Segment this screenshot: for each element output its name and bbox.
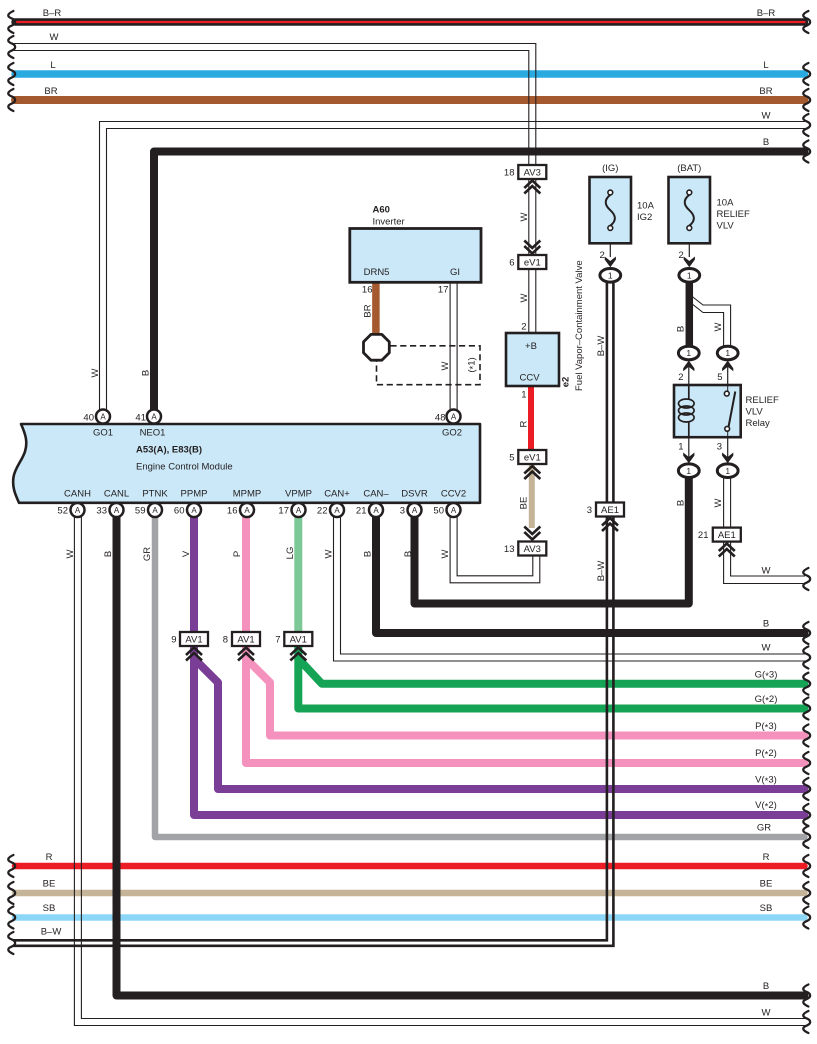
svg-text:GR: GR bbox=[757, 823, 771, 834]
svg-text:A: A bbox=[412, 506, 418, 515]
wire stub fuse BAT pin 2 bbox=[688, 230, 690, 257]
connector 1 above relay pin 5 bbox=[717, 346, 738, 360]
svg-text:eV1: eV1 bbox=[524, 452, 541, 463]
svg-text:L: L bbox=[50, 60, 55, 71]
ECM pin 48 GO2 bbox=[447, 410, 461, 424]
svg-text:VPMP: VPMP bbox=[285, 489, 312, 500]
break symbol B-W left bbox=[8, 932, 15, 954]
wire B from fuse BAT to relay feed connector bbox=[686, 282, 694, 347]
connector AV1-9 bbox=[171, 632, 208, 646]
svg-text:9: 9 bbox=[171, 634, 176, 645]
svg-text:CANH: CANH bbox=[64, 489, 91, 500]
svg-text:B: B bbox=[676, 500, 687, 506]
svg-text:W: W bbox=[90, 368, 101, 377]
svg-text:1: 1 bbox=[725, 466, 730, 476]
wire W between AV3-18 and eV1-6 bbox=[529, 178, 536, 256]
svg-text:W: W bbox=[713, 322, 724, 331]
svg-text:RELIEF: RELIEF bbox=[746, 395, 779, 406]
wire B-R black base top horizontal bbox=[15, 18, 805, 26]
break symbol W right AE1-21 bbox=[803, 568, 810, 590]
ECM pin 33 CANL bbox=[110, 503, 124, 517]
svg-text:W: W bbox=[762, 1008, 771, 1019]
svg-text:17: 17 bbox=[438, 285, 449, 296]
svg-text:A: A bbox=[334, 506, 340, 515]
break symbol SB left bbox=[8, 907, 15, 929]
svg-text:MPMP: MPMP bbox=[233, 489, 262, 500]
svg-text:Fuel Vapor–Containment Valve: Fuel Vapor–Containment Valve bbox=[574, 260, 585, 391]
connector AV1-7 bbox=[275, 632, 312, 646]
wire B-W from fuse IG down and left to edge bbox=[13, 282, 613, 946]
svg-text:40: 40 bbox=[83, 413, 94, 424]
svg-text:A60: A60 bbox=[373, 205, 390, 216]
break symbol G(*3) right bbox=[803, 673, 810, 695]
break symbol B-R left bbox=[8, 11, 15, 33]
svg-text:W: W bbox=[519, 212, 530, 221]
chevron toward AV3-18 bbox=[524, 181, 540, 194]
wire BR (brown) top horizontal bbox=[15, 96, 805, 104]
svg-text:W: W bbox=[65, 549, 76, 558]
svg-text:LG: LG bbox=[285, 547, 296, 560]
svg-text:GO1: GO1 bbox=[93, 428, 113, 439]
break symbol BE left bbox=[8, 882, 15, 904]
connector AV1-8 bbox=[223, 632, 260, 646]
svg-text:e2: e2 bbox=[561, 377, 572, 388]
break symbol B right top bbox=[803, 141, 810, 163]
break symbol BR left bbox=[8, 89, 15, 111]
arrow into connector above relay pin 2 bbox=[683, 360, 694, 371]
svg-text:GI: GI bbox=[450, 267, 460, 278]
svg-text:NEO1: NEO1 bbox=[140, 428, 166, 439]
wire B from right edge to ECM pin NEO1 bbox=[154, 152, 805, 411]
wire R (red) bottom horizontal bbox=[15, 863, 805, 870]
connector eV1-6 bbox=[509, 255, 546, 269]
svg-text:Relay: Relay bbox=[746, 418, 771, 429]
svg-text:B: B bbox=[141, 370, 152, 376]
break symbol V(*2) right bbox=[803, 804, 810, 826]
connector eV1-5 bbox=[509, 450, 546, 464]
svg-text:B: B bbox=[103, 551, 114, 557]
svg-text:A: A bbox=[75, 506, 81, 515]
relay coil bbox=[679, 385, 695, 437]
connector 1 below relay pin 3 bbox=[717, 464, 738, 478]
svg-text:2: 2 bbox=[679, 250, 684, 261]
wire W from ECM pin CAN+ to right edge bbox=[334, 517, 806, 661]
svg-text:16: 16 bbox=[362, 285, 373, 296]
wire L (blue) top horizontal bbox=[15, 70, 805, 78]
break symbol SB right bbox=[803, 907, 810, 929]
wire V(*3) branch from AV1-9 to right edge bbox=[194, 659, 805, 790]
svg-text:CCV: CCV bbox=[519, 373, 540, 384]
svg-text:G(*3): G(*3) bbox=[755, 670, 778, 683]
chevron toward AE1-3 bbox=[602, 518, 618, 531]
svg-text:A: A bbox=[451, 413, 457, 422]
svg-text:5: 5 bbox=[509, 452, 514, 463]
wire V from ECM pin PPMP to connector AV1-9 bbox=[190, 517, 198, 633]
svg-text:R: R bbox=[763, 852, 770, 863]
svg-text:21: 21 bbox=[698, 530, 709, 541]
connector AV3-13 bbox=[504, 542, 546, 556]
svg-text:BE: BE bbox=[760, 879, 773, 890]
svg-text:B–W: B–W bbox=[596, 336, 607, 357]
svg-text:CANL: CANL bbox=[104, 489, 129, 500]
fuse 10A IG2 box bbox=[590, 177, 632, 243]
wire BR from inverter DRN5 to noise filter bbox=[372, 282, 380, 333]
svg-text:V: V bbox=[181, 550, 192, 557]
break symbol V(*3) right bbox=[803, 778, 810, 800]
svg-text:AV1: AV1 bbox=[237, 634, 254, 645]
svg-text:17: 17 bbox=[278, 506, 289, 517]
connector AV3-18 bbox=[504, 165, 546, 179]
svg-text:3: 3 bbox=[587, 505, 592, 516]
connector 1 above relay pin 2 bbox=[678, 346, 699, 360]
svg-text:1: 1 bbox=[521, 390, 526, 401]
arrow into connector below relay pin 3 bbox=[722, 453, 733, 464]
wire W from AE1-21 to right edge bbox=[724, 541, 805, 584]
svg-text:1: 1 bbox=[686, 466, 691, 476]
svg-text:RELIEF: RELIEF bbox=[717, 209, 750, 220]
svg-text:7: 7 bbox=[275, 634, 280, 645]
svg-text:6: 6 bbox=[509, 257, 514, 268]
inverter A60 box bbox=[350, 229, 481, 283]
svg-text:BR: BR bbox=[363, 304, 374, 317]
svg-text:A: A bbox=[451, 506, 457, 515]
ECM pin 40 GO1 bbox=[96, 410, 110, 424]
svg-text:60: 60 bbox=[174, 506, 185, 517]
svg-text:A: A bbox=[244, 506, 250, 515]
fuse IG element bbox=[606, 190, 615, 230]
svg-text:22: 22 bbox=[317, 506, 328, 517]
connector 1 below fuse IG bbox=[600, 269, 621, 283]
svg-text:59: 59 bbox=[135, 506, 146, 517]
svg-text:V(*3): V(*3) bbox=[755, 775, 777, 788]
ECM pin 22 CAN+ bbox=[330, 503, 344, 517]
wire P(*3) branch from AV1-8 to right edge bbox=[246, 659, 805, 736]
svg-text:IG2: IG2 bbox=[637, 212, 652, 223]
svg-text:B–R: B–R bbox=[757, 8, 776, 19]
svg-text:AV1: AV1 bbox=[185, 634, 202, 645]
wire R from CCV pin 1 to connector eV1-5 bbox=[528, 386, 534, 451]
svg-text:B: B bbox=[676, 326, 687, 332]
relay switch bbox=[724, 385, 735, 437]
wire P(*2) from AV1-8 to right edge bbox=[246, 646, 805, 763]
svg-text:AV3: AV3 bbox=[524, 167, 541, 178]
ECM pin 17 VPMP bbox=[292, 503, 306, 517]
wire B from ECM pin CANL to bottom right edge bbox=[117, 517, 805, 996]
svg-text:B: B bbox=[763, 981, 769, 992]
svg-text:W: W bbox=[440, 361, 451, 370]
wire stub relay pin 5 bbox=[727, 359, 729, 385]
svg-text:W: W bbox=[440, 549, 451, 558]
wire W from left edge to connector AV3-18 bbox=[13, 44, 536, 167]
break symbol W left top bbox=[8, 36, 15, 58]
svg-text:1: 1 bbox=[608, 271, 613, 281]
shield dashed box (*1) bbox=[377, 346, 481, 385]
break symbol P(*2) right bbox=[803, 752, 810, 774]
svg-text:A: A bbox=[296, 506, 302, 515]
svg-text:Inverter: Inverter bbox=[373, 217, 405, 228]
svg-text:L: L bbox=[763, 60, 768, 71]
svg-text:P(*3): P(*3) bbox=[755, 721, 777, 734]
svg-text:2: 2 bbox=[678, 372, 683, 383]
svg-text:BE: BE bbox=[43, 879, 56, 890]
wire stub fuse IG pin 2 bbox=[609, 230, 611, 257]
connector 1 below relay pin 1 bbox=[678, 464, 699, 478]
chevron toward AV1-9 bbox=[186, 648, 202, 661]
chevron toward AE1-21 bbox=[719, 544, 735, 557]
svg-text:BR: BR bbox=[759, 86, 772, 97]
svg-text:A: A bbox=[114, 506, 120, 515]
chevron toward AV1-7 bbox=[290, 648, 306, 661]
break symbol B-R right bbox=[803, 11, 810, 33]
break symbol BR right bbox=[803, 89, 810, 111]
svg-text:AE1: AE1 bbox=[718, 530, 736, 541]
arrow into connector below fuse IG bbox=[605, 257, 616, 268]
arrow into connector below relay pin 1 bbox=[683, 453, 694, 464]
svg-text:2: 2 bbox=[600, 250, 605, 261]
wire B from ECM pin CAN- to right edge bbox=[376, 517, 805, 633]
svg-text:SB: SB bbox=[43, 903, 56, 914]
connector AE1-21 bbox=[698, 528, 741, 542]
arrow into connector below fuse BAT bbox=[684, 257, 695, 268]
svg-text:13: 13 bbox=[504, 544, 515, 555]
wire W from inverter GI to ECM pin GO2 bbox=[450, 281, 457, 411]
svg-text:B: B bbox=[363, 551, 374, 557]
svg-text:eV1: eV1 bbox=[524, 257, 541, 268]
ECM pin 50 CCV2 bbox=[447, 503, 461, 517]
connector 1 below fuse BAT bbox=[679, 269, 700, 283]
ECM pin 3 DSVR bbox=[408, 503, 422, 517]
svg-text:+B: +B bbox=[525, 341, 537, 352]
wire W branch from B wire to relay pin 5 feed bbox=[689, 294, 731, 348]
wire W from ECM pin CANH to bottom right edge bbox=[74, 517, 805, 1026]
svg-text:B–W: B–W bbox=[41, 927, 62, 938]
svg-text:5: 5 bbox=[717, 372, 722, 383]
svg-text:1: 1 bbox=[678, 442, 683, 453]
chevron toward AV1-8 bbox=[238, 648, 254, 661]
arrow into connector above relay pin 5 bbox=[722, 360, 733, 371]
svg-text:W: W bbox=[324, 549, 335, 558]
break symbol G(*2) right bbox=[803, 698, 810, 720]
svg-text:VLV: VLV bbox=[717, 221, 735, 232]
svg-text:W: W bbox=[519, 293, 530, 302]
fuel vapor containment valve CCV box bbox=[506, 333, 559, 386]
svg-text:P(*2): P(*2) bbox=[755, 748, 777, 761]
svg-text:(BAT): (BAT) bbox=[677, 163, 701, 174]
wire G(*3) branch from AV1-7 to right edge bbox=[298, 659, 804, 684]
break symbol W right top bbox=[803, 114, 810, 136]
svg-text:VLV: VLV bbox=[746, 407, 764, 418]
svg-text:BE: BE bbox=[519, 497, 530, 510]
ECM A53(A) E83(B) Engine Control Module box bbox=[13, 424, 480, 503]
wire G(*2) from AV1-7 to right edge bbox=[298, 646, 804, 709]
wire W between eV1-6 and CCV pin +B bbox=[529, 268, 536, 334]
svg-text:PTNK: PTNK bbox=[142, 489, 168, 500]
break symbol W right CAN+ bbox=[803, 647, 810, 669]
svg-text:41: 41 bbox=[135, 413, 146, 424]
svg-text:3: 3 bbox=[717, 442, 722, 453]
svg-text:AE1: AE1 bbox=[601, 505, 619, 516]
svg-text:(*1): (*1) bbox=[467, 357, 480, 372]
ECM pin 60 PPMP bbox=[187, 503, 201, 517]
svg-text:A: A bbox=[151, 413, 157, 422]
break symbol P(*3) right bbox=[803, 725, 810, 747]
svg-text:A: A bbox=[100, 413, 106, 422]
break symbol B right CAN- bbox=[803, 622, 810, 644]
svg-text:W: W bbox=[50, 32, 59, 43]
wire SB (sky blue) bottom horizontal bbox=[15, 914, 805, 921]
wire W from ECM pin GO1 to right edge bbox=[100, 122, 806, 412]
svg-text:16: 16 bbox=[227, 506, 238, 517]
break symbol L right bbox=[803, 63, 810, 85]
svg-text:1: 1 bbox=[687, 271, 692, 281]
svg-text:B: B bbox=[403, 551, 414, 557]
svg-text:R: R bbox=[46, 852, 53, 863]
svg-text:W: W bbox=[762, 111, 771, 122]
svg-text:A53(A), E83(B): A53(A), E83(B) bbox=[136, 445, 202, 456]
svg-text:PPMP: PPMP bbox=[181, 489, 208, 500]
svg-text:DRN5: DRN5 bbox=[364, 267, 390, 278]
svg-text:P: P bbox=[232, 551, 243, 557]
svg-text:CAN+: CAN+ bbox=[324, 489, 350, 500]
svg-text:W: W bbox=[762, 566, 771, 577]
svg-text:B–W: B–W bbox=[596, 561, 607, 582]
ECM pin 41 NEO1 bbox=[147, 410, 161, 424]
chevron toward eV1-6 bbox=[524, 241, 540, 254]
svg-text:48: 48 bbox=[435, 413, 446, 424]
svg-text:GR: GR bbox=[142, 547, 153, 561]
wire B from ECM pin DSVR to relay pin 1 bbox=[415, 477, 689, 604]
svg-text:W: W bbox=[762, 643, 771, 654]
break symbol B right bottom bbox=[803, 985, 810, 1007]
svg-text:18: 18 bbox=[504, 167, 515, 178]
wire LG from ECM pin VPMP to connector AV1-7 bbox=[294, 517, 302, 633]
wire B-R red stripe bbox=[15, 21, 805, 23]
svg-text:21: 21 bbox=[356, 506, 367, 517]
svg-text:GO2: GO2 bbox=[442, 428, 462, 439]
ECM pin 52 CANH bbox=[71, 503, 85, 517]
break symbol L left bbox=[8, 63, 15, 85]
wire W from relay pin 3 to connector AE1-21 bbox=[724, 477, 731, 529]
svg-text:B: B bbox=[763, 137, 769, 148]
svg-text:2: 2 bbox=[521, 322, 526, 333]
break symbol R left bbox=[8, 855, 15, 877]
svg-text:1: 1 bbox=[686, 348, 691, 358]
wire V(*2) from AV1-9 to right edge bbox=[194, 646, 805, 815]
svg-text:SB: SB bbox=[760, 903, 773, 914]
svg-text:V(*2): V(*2) bbox=[755, 800, 777, 813]
svg-text:3: 3 bbox=[400, 506, 405, 517]
chevron toward eV1-5 bbox=[524, 466, 540, 479]
wire GR from ECM pin PTNK to right edge bbox=[155, 517, 805, 837]
wire stub relay pin 1 bbox=[688, 437, 690, 465]
svg-text:52: 52 bbox=[57, 506, 68, 517]
svg-text:R: R bbox=[519, 420, 530, 427]
ECM pin 21 CAN– bbox=[369, 503, 383, 517]
chevron toward AV3-13 bbox=[524, 527, 540, 540]
svg-text:33: 33 bbox=[96, 506, 107, 517]
svg-text:(IG): (IG) bbox=[602, 163, 618, 174]
svg-text:CCV2: CCV2 bbox=[441, 489, 466, 500]
svg-text:A: A bbox=[152, 506, 158, 515]
svg-text:W: W bbox=[713, 498, 724, 507]
wire P from ECM pin MPMP to connector AV1-8 bbox=[242, 517, 250, 633]
break symbol W right bottom bbox=[803, 1011, 810, 1033]
svg-text:AV3: AV3 bbox=[524, 544, 541, 555]
svg-text:BR: BR bbox=[44, 86, 57, 97]
break symbol R right bbox=[803, 855, 810, 877]
svg-text:Engine Control Module: Engine Control Module bbox=[136, 462, 233, 473]
fuse BAT element bbox=[685, 190, 694, 230]
svg-text:A: A bbox=[373, 506, 379, 515]
wire BE between eV1-5 and AV3-13 bbox=[529, 463, 535, 528]
wire W from ECM pin CCV2 to connector AV3-13 bbox=[450, 517, 540, 583]
svg-text:8: 8 bbox=[223, 634, 228, 645]
wire BE (beige) bottom horizontal bbox=[15, 890, 805, 897]
RELIEF VLV relay box bbox=[674, 385, 741, 437]
svg-text:10A: 10A bbox=[637, 201, 655, 212]
svg-text:1: 1 bbox=[725, 348, 730, 358]
svg-text:A: A bbox=[191, 506, 197, 515]
svg-text:CAN–: CAN– bbox=[363, 489, 389, 500]
noise filter octagon bbox=[364, 334, 390, 360]
connector AE1-3 bbox=[587, 503, 624, 517]
svg-text:AV1: AV1 bbox=[290, 634, 307, 645]
svg-text:50: 50 bbox=[433, 506, 444, 517]
svg-text:G(*2): G(*2) bbox=[755, 694, 778, 707]
ECM pin 16 MPMP bbox=[240, 503, 254, 517]
ECM pin 59 PTNK bbox=[148, 503, 162, 517]
svg-text:B: B bbox=[763, 619, 769, 630]
wire stub relay pin 2 bbox=[688, 359, 690, 385]
wire stub relay pin 3 bbox=[727, 437, 729, 465]
fuse 10A RELIEF VLV box bbox=[669, 177, 711, 243]
break symbol GR right bbox=[803, 826, 810, 848]
break symbol BE right bbox=[803, 882, 810, 904]
svg-text:DSVR: DSVR bbox=[401, 489, 428, 500]
svg-text:10A: 10A bbox=[717, 198, 735, 209]
svg-text:B–R: B–R bbox=[43, 8, 62, 19]
